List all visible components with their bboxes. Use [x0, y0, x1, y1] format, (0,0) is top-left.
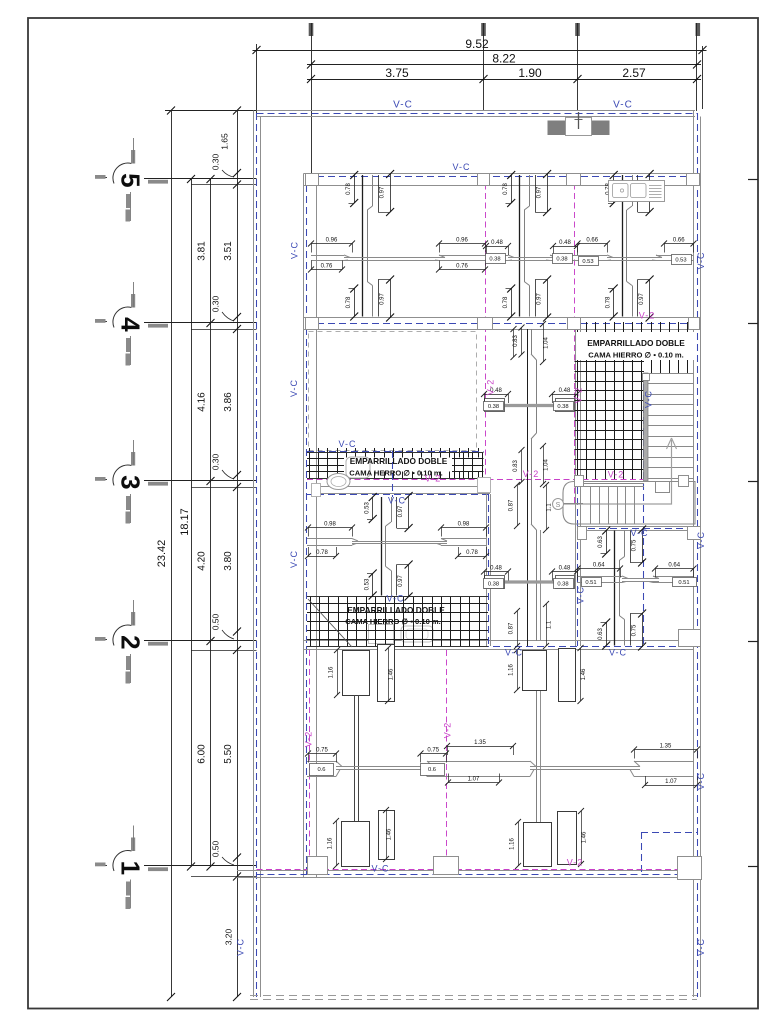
label V-C stair [644, 390, 654, 408]
svg-text:0.97: 0.97 [398, 505, 404, 517]
svg-text:V-C: V-C [613, 100, 633, 111]
svg-text:V-C: V-C [505, 648, 523, 658]
svg-text:V-C: V-C [338, 439, 356, 449]
label V-C left edge 1 [290, 241, 300, 259]
svg-text:V-C: V-C [236, 938, 246, 956]
band1 footing dims left [308, 238, 355, 273]
stub footing band3 [481, 566, 580, 589]
svg-text:V-C: V-C [386, 594, 404, 604]
offset dim 0.30 grid5 [211, 153, 235, 177]
lot left edge wall [254, 111, 261, 998]
band3 footing dims left [305, 522, 355, 560]
svg-text:S: S [556, 502, 561, 509]
svg-text:0.98: 0.98 [324, 522, 336, 528]
label V-C lot top right [613, 100, 633, 111]
left extent line 23.42 [156, 107, 175, 1002]
svg-text:23.42: 23.42 [156, 540, 168, 568]
svg-text:0.38: 0.38 [488, 582, 499, 588]
building left wall [304, 174, 317, 878]
offset dim 0.30 grid4 [211, 295, 235, 321]
svg-text:V-C: V-C [289, 550, 299, 568]
stair treads [648, 374, 694, 479]
svg-text:1.35: 1.35 [660, 744, 672, 750]
label V-2 x446 [443, 722, 453, 739]
svg-text:1: 1 [116, 861, 146, 875]
label V-C patio left [236, 938, 246, 956]
svg-text:V-2: V-2 [608, 470, 625, 480]
columns at grid1 wall [308, 857, 702, 880]
svg-text:0.38: 0.38 [488, 404, 499, 410]
stair S symbol [553, 499, 564, 510]
svg-text:1.35: 1.35 [474, 740, 486, 746]
svg-text:0.75: 0.75 [632, 624, 638, 636]
svg-text:0.6: 0.6 [428, 767, 436, 773]
svg-text:V-C: V-C [290, 241, 300, 259]
svg-text:0.53: 0.53 [365, 578, 371, 590]
svg-text:0.78: 0.78 [503, 296, 509, 308]
svg-text:0.38: 0.38 [557, 582, 568, 588]
svg-text:V-2: V-2 [574, 387, 584, 404]
label V-2 y479 left [425, 474, 442, 484]
svg-text:1.1: 1.1 [547, 620, 553, 629]
column marker hatch col B [309, 23, 314, 174]
svg-text:0.38: 0.38 [489, 257, 500, 263]
svg-text:1.46: 1.46 [389, 668, 395, 680]
svg-text:0.51: 0.51 [678, 580, 689, 586]
fixture in emparrillado 2 [369, 625, 434, 644]
grid bubble 4 [95, 282, 257, 366]
svg-text:V-2: V-2 [425, 474, 442, 484]
svg-text:0.78: 0.78 [503, 183, 509, 195]
central footing pads above grid1 [510, 808, 588, 869]
svg-text:0.97: 0.97 [537, 293, 543, 305]
emparrillado grid 3 [575, 322, 688, 479]
central footing dims mid [513, 443, 550, 487]
svg-text:V-C: V-C [576, 586, 586, 604]
svg-text:V-C: V-C [289, 379, 299, 397]
label V-2 y479 right [608, 470, 625, 480]
toilet fixture at beam [327, 457, 370, 490]
lot right edge wall [694, 111, 701, 998]
label V-C right edge 2 [696, 531, 706, 549]
central footing dims low [509, 601, 553, 649]
svg-text:1.16: 1.16 [328, 837, 334, 849]
beam grid 3 [306, 487, 490, 495]
svg-text:0.75: 0.75 [632, 539, 638, 551]
horizontal footing band3b [577, 576, 694, 583]
column marker hatch col C [481, 23, 486, 111]
interior wall x488 [487, 494, 491, 646]
svg-text:V-2: V-2 [443, 722, 453, 739]
central footing dims top [513, 321, 550, 365]
label V-C patio right [696, 938, 706, 956]
svg-text:1.46: 1.46 [387, 828, 393, 840]
bottom right notch dashed [641, 832, 697, 874]
svg-text:V-C: V-C [696, 531, 706, 549]
svg-text:0.50: 0.50 [211, 840, 221, 857]
svg-text:CAMA HIERRO ∅ ▪ 0.10 m.: CAMA HIERRO ∅ ▪ 0.10 m. [345, 617, 441, 626]
svg-text:0.30: 0.30 [211, 295, 221, 312]
svg-text:CAMA HIERRO ∅ ▪ 0.10 m.: CAMA HIERRO ∅ ▪ 0.10 m. [588, 351, 684, 360]
svg-text:0.53: 0.53 [365, 502, 371, 514]
svg-text:5: 5 [116, 173, 146, 187]
svg-text:0.48: 0.48 [491, 240, 503, 246]
svg-text:0.97: 0.97 [380, 293, 386, 305]
svg-text:0.78: 0.78 [316, 550, 328, 556]
label V-C right room top [630, 528, 648, 538]
emparrillado 1 V-C dashed borders [307, 451, 484, 497]
wall grid 1 [237, 871, 697, 878]
label V-C emparrillado2 top [386, 594, 404, 604]
svg-text:V-C: V-C [696, 938, 706, 956]
label V-C grid2 left [505, 648, 523, 658]
svg-text:1.04: 1.04 [544, 459, 550, 471]
grid bubble 3 [95, 440, 257, 524]
svg-text:0.75: 0.75 [316, 748, 328, 754]
right room top wall [577, 527, 696, 531]
stub footing band2 [481, 388, 580, 412]
footing F2 room2 [503, 170, 551, 322]
lot top edge wall [257, 111, 698, 117]
svg-text:3.51: 3.51 [223, 241, 234, 261]
svg-text:0.98: 0.98 [458, 522, 470, 528]
footing F3 room3 [606, 170, 654, 322]
svg-text:1.46: 1.46 [581, 668, 587, 680]
label V-C grid1 [371, 864, 389, 874]
wall grid 5 [304, 174, 698, 186]
label V-C grid5 wall [452, 162, 470, 172]
svg-text:0.30: 0.30 [211, 453, 221, 470]
beam end blocks [312, 478, 491, 497]
emparrillado 2 label [345, 605, 445, 626]
svg-text:0.97: 0.97 [639, 293, 645, 305]
svg-text:1.46: 1.46 [582, 831, 588, 843]
stair-room divider blue dash x643 [643, 373, 645, 646]
svg-text:0.50: 0.50 [211, 613, 221, 630]
label V-2 x309 [304, 731, 314, 748]
svg-text:0.64: 0.64 [668, 563, 680, 569]
label V-2 y479 mid [523, 469, 540, 479]
svg-text:V-C: V-C [696, 772, 706, 790]
horizontal footing band3 [307, 539, 487, 546]
grid bubble 5 [95, 138, 257, 222]
columns at right room wall [578, 527, 701, 540]
left chain line wall faces [220, 107, 242, 1002]
svg-text:V-C: V-C [388, 496, 406, 506]
svg-text:0.83: 0.83 [513, 460, 519, 472]
svg-text:0.83: 0.83 [513, 335, 519, 347]
top dimension extension line grid col A [256, 44, 258, 113]
svg-text:0.64: 0.64 [593, 563, 605, 569]
lot bottom edge dashed [250, 996, 697, 1000]
svg-text:4.16: 4.16 [197, 392, 208, 412]
svg-text:0.30: 0.30 [211, 153, 221, 170]
svg-text:3: 3 [116, 475, 146, 489]
kitchen sink symbol [609, 181, 665, 202]
svg-text:0.48: 0.48 [490, 566, 502, 572]
svg-text:V-C: V-C [609, 648, 627, 658]
footing F6 vertical [598, 526, 646, 651]
svg-text:0.48: 0.48 [559, 388, 571, 394]
svg-text:0.6: 0.6 [317, 767, 325, 773]
svg-text:0.87: 0.87 [509, 499, 515, 511]
column marker hatch col D [575, 23, 580, 111]
svg-text:3.86: 3.86 [223, 392, 234, 412]
svg-text:0.38: 0.38 [557, 404, 568, 410]
svg-text:EMPARRILLADO DOBLE: EMPARRILLADO DOBLE [347, 605, 445, 615]
central footing dims mid2 [509, 482, 553, 533]
emparrillado grid 2 [307, 596, 488, 647]
svg-text:0.53: 0.53 [675, 258, 686, 264]
svg-text:V-C: V-C [452, 162, 470, 172]
wall grid 4 [304, 318, 698, 330]
svg-text:0.97: 0.97 [380, 186, 386, 198]
svg-text:0.96: 0.96 [326, 238, 338, 244]
label V-C right edge 3 [696, 772, 706, 790]
svg-text:1.90: 1.90 [518, 66, 542, 80]
svg-text:1.1: 1.1 [547, 503, 553, 512]
label V-2 x485 [486, 379, 496, 396]
svg-text:1.07: 1.07 [468, 777, 480, 783]
svg-text:1.04: 1.04 [544, 337, 550, 349]
dimension row 3.75 / 1.90 / 2.57 [307, 66, 701, 83]
grid bubble 1 [95, 826, 257, 910]
svg-text:18.17: 18.17 [179, 508, 191, 536]
grid bubble 2 [95, 600, 257, 684]
band4 dims far left [305, 748, 339, 776]
svg-text:4: 4 [116, 317, 146, 332]
svg-text:V-2: V-2 [523, 469, 540, 479]
svg-text:0.97: 0.97 [398, 575, 404, 587]
emparrillado 1 label [349, 456, 447, 478]
svg-text:0.53: 0.53 [582, 259, 593, 265]
columns at grid5 wall [306, 174, 700, 186]
offset dim 0.50 grid2 [211, 613, 235, 639]
V-2 axis vertical x446 lower [446, 650, 448, 869]
columns at grid4 wall [306, 318, 700, 330]
svg-text:EMPARRILLADO DOBLE: EMPARRILLADO DOBLE [350, 456, 448, 466]
central footing strip [528, 329, 541, 822]
svg-text:9.52: 9.52 [465, 37, 489, 51]
svg-text:V-C: V-C [371, 864, 389, 874]
label V-2 y869 [567, 858, 584, 868]
label V-C grid2 right [609, 648, 627, 658]
svg-text:0.76: 0.76 [456, 264, 468, 270]
label V-C right edge 1 [696, 251, 706, 269]
column symbol top strip [548, 112, 610, 136]
band1 footing dims mid2 [550, 238, 610, 266]
svg-text:3.81: 3.81 [197, 241, 208, 261]
svg-text:V-C: V-C [630, 528, 648, 538]
footing F1 room1 [346, 170, 394, 322]
svg-text:V-2: V-2 [639, 311, 656, 321]
label V-C right room left wall [576, 586, 586, 604]
svg-text:3.75: 3.75 [385, 66, 409, 80]
svg-text:0.87: 0.87 [509, 622, 515, 634]
svg-text:3.20: 3.20 [224, 928, 234, 945]
stair stringer bar [643, 373, 650, 481]
band2 right dim 0.83 [511, 326, 517, 360]
left extent line 18.17 [179, 175, 195, 871]
label V-C grid3 beam [388, 496, 406, 506]
svg-text:1.07: 1.07 [665, 779, 677, 785]
horizontal footing band1 [311, 255, 694, 261]
svg-text:0.51: 0.51 [585, 580, 596, 586]
horizontal footing band4 [307, 761, 694, 777]
svg-text:1.16: 1.16 [510, 838, 516, 850]
svg-text:0.78: 0.78 [346, 296, 352, 308]
svg-text:0.66: 0.66 [586, 238, 598, 244]
label V-C left edge 3 [289, 550, 299, 568]
dimension 8.22 [307, 52, 701, 69]
svg-text:V-C: V-C [696, 251, 706, 269]
svg-text:4.20: 4.20 [197, 551, 208, 571]
band3 footing dims right [438, 522, 489, 560]
band4 dims 1.35 / 1.07 right [631, 744, 700, 789]
svg-text:3.80: 3.80 [223, 551, 234, 571]
label V-C grid4 wall [338, 439, 356, 449]
svg-text:2: 2 [116, 635, 146, 649]
stair up arrow [558, 438, 677, 504]
svg-text:V-C: V-C [393, 100, 413, 111]
top extent line [165, 110, 259, 112]
svg-text:0.66: 0.66 [673, 238, 685, 244]
svg-text:V-2: V-2 [486, 379, 496, 396]
svg-text:0.78: 0.78 [466, 550, 478, 556]
svg-text:V-C: V-C [644, 390, 654, 408]
svg-text:1.65: 1.65 [220, 133, 230, 150]
svg-text:8.22: 8.22 [492, 52, 516, 66]
svg-text:5.50: 5.50 [223, 744, 234, 764]
band4 dims 1.35 / 1.07 mid [444, 740, 516, 786]
svg-text:0.97: 0.97 [537, 186, 543, 198]
label V-C left edge 2 [289, 379, 299, 397]
svg-text:0.48: 0.48 [559, 240, 571, 246]
band4 dims mid [418, 748, 450, 776]
svg-text:V-2: V-2 [304, 731, 314, 748]
central footing pads below grid2 [509, 645, 588, 704]
wall grid 2 [304, 641, 698, 650]
svg-text:0.48: 0.48 [559, 566, 571, 572]
V-2 axis vertical x574 [574, 174, 576, 506]
svg-text:EMPARRILLADO DOBLE: EMPARRILLADO DOBLE [587, 338, 685, 348]
svg-text:0.96: 0.96 [456, 238, 468, 244]
svg-text:1.16: 1.16 [509, 664, 515, 676]
svg-text:0.78: 0.78 [346, 183, 352, 195]
svg-text:6.00: 6.00 [197, 744, 208, 764]
label V-2 x574 [574, 387, 584, 404]
offset dim 0.50 grid1 [211, 840, 235, 865]
column marker hatch col E [696, 23, 701, 111]
svg-text:0.75: 0.75 [427, 748, 439, 754]
emparrillado 3 label [577, 332, 694, 360]
dimension 9.52 overall width [253, 37, 707, 109]
footing F7 left lower room [328, 645, 395, 870]
svg-text:0.76: 0.76 [321, 264, 333, 270]
interior wall x577 [576, 322, 581, 646]
left chain line axis distances [197, 175, 215, 871]
svg-text:0.38: 0.38 [556, 257, 567, 263]
V-2 axis vertical x485 [485, 174, 487, 479]
V-2 axis vertical x309 lower [309, 650, 311, 869]
footing F5 vertical [365, 492, 413, 601]
svg-text:0.63: 0.63 [598, 628, 604, 640]
V-2 axis horizontal y869 [257, 869, 698, 871]
svg-text:0.63: 0.63 [598, 536, 604, 548]
band1 footing dims right [661, 238, 697, 265]
V-2 axis horizontal y479 [307, 479, 643, 481]
svg-text:1.16: 1.16 [329, 666, 335, 678]
emparrillado grid 1 [307, 448, 484, 479]
band1 footing dims mid [436, 238, 511, 273]
band3b dims left [575, 563, 624, 587]
svg-text:2.57: 2.57 [622, 66, 646, 80]
svg-text:0.78: 0.78 [606, 296, 612, 308]
svg-text:V-2: V-2 [567, 858, 584, 868]
offset dim 0.30 grid3 [211, 453, 235, 479]
label V-2 stair top [639, 311, 656, 321]
columns at stair landing [575, 476, 689, 487]
bottom right notch wall [679, 630, 701, 647]
band3b dims right [652, 563, 697, 587]
open area dashed rectangle [309, 332, 477, 451]
right border grid ticks [748, 180, 758, 867]
label V-C lot top left [393, 100, 413, 111]
stair landing [563, 482, 695, 525]
